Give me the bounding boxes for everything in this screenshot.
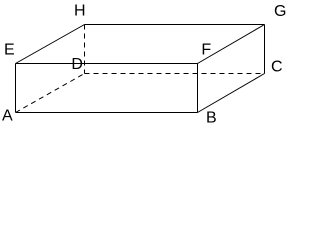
svg-text:A: A	[2, 108, 13, 125]
svg-text:E: E	[4, 42, 15, 59]
svg-text:D: D	[71, 56, 83, 73]
svg-text:H: H	[74, 3, 86, 20]
svg-text:C: C	[271, 59, 283, 76]
svg-text:G: G	[274, 3, 286, 20]
svg-text:F: F	[201, 42, 211, 59]
svg-text:B: B	[206, 110, 217, 127]
